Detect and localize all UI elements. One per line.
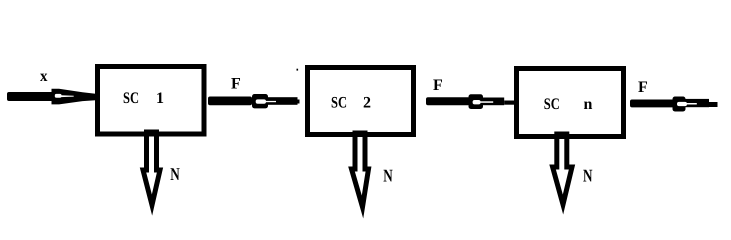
- svg-text:N: N: [383, 166, 393, 186]
- svg-text:2: 2: [363, 95, 371, 112]
- svg-text:F: F: [638, 79, 648, 96]
- svg-text:SC: SC: [544, 96, 560, 113]
- svg-text:F: F: [433, 77, 443, 94]
- svg-text:N: N: [583, 166, 593, 186]
- svg-text:n: n: [584, 96, 593, 113]
- svg-text:1: 1: [156, 90, 164, 107]
- svg-text:x: x: [40, 68, 48, 85]
- svg-text:SC: SC: [123, 90, 139, 107]
- svg-text:N: N: [170, 164, 180, 184]
- svg-text:F: F: [231, 76, 241, 93]
- svg-text:SC: SC: [331, 95, 347, 112]
